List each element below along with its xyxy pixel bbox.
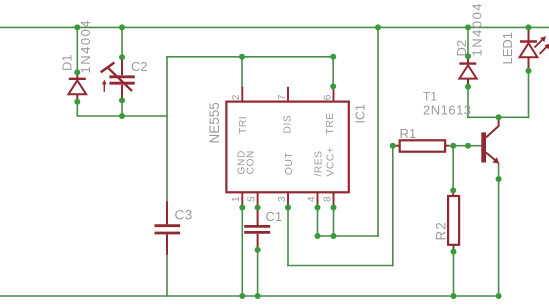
wire bottom ground rail <box>0 295 499 297</box>
junction ground pin1 <box>239 293 245 299</box>
pin 2 stub <box>241 87 243 102</box>
junction D2 top <box>465 53 471 59</box>
junction C2 bottom <box>119 97 125 103</box>
IC U1 NE555 box <box>226 102 348 193</box>
svg-text:C1: C1 <box>266 209 283 224</box>
svg-text:5: 5 <box>246 196 257 202</box>
transistor T1 <box>481 120 499 164</box>
svg-text:R2: R2 <box>434 221 449 240</box>
junction pin6 top <box>330 83 336 89</box>
junction emitter node <box>496 176 502 182</box>
pin 6 stub <box>333 87 335 102</box>
svg-text:DIS: DIS <box>283 115 294 134</box>
resistor R2 <box>448 190 459 251</box>
svg-text:CON: CON <box>246 150 257 174</box>
junction top rail / D1 <box>74 24 80 30</box>
junction pin4 <box>315 205 321 211</box>
svg-text:NE555: NE555 <box>207 102 222 143</box>
junction pin4 vcc <box>315 233 321 239</box>
trimmer capacitor C2 <box>101 57 135 100</box>
svg-text:C3: C3 <box>175 208 193 223</box>
svg-text:1N4004: 1N4004 <box>470 2 485 57</box>
wire C2 bottom drop <box>121 100 123 116</box>
junction top rail / x378 <box>375 24 381 30</box>
junction pin1 <box>239 205 245 211</box>
svg-text:3: 3 <box>277 196 288 202</box>
wire pin6 riser <box>332 57 334 87</box>
svg-text:1: 1 <box>231 196 242 202</box>
junction R2 bottom <box>451 249 457 255</box>
wire pin2 riser <box>241 57 243 87</box>
pin 4 stub <box>317 192 319 207</box>
junction node row end <box>330 54 336 60</box>
wire C2 top drop <box>121 27 123 57</box>
wire D2 top drop <box>467 27 469 56</box>
wire R2 top drop <box>452 146 454 191</box>
svg-text:/RES: /RES <box>314 150 325 176</box>
svg-text:LED1: LED1 <box>500 32 515 65</box>
wire D1 bottom drop <box>76 102 78 116</box>
svg-text:T1: T1 <box>423 90 437 104</box>
svg-text:8: 8 <box>322 196 333 202</box>
wire C3 vertical lower <box>166 255 168 296</box>
svg-text:VCC+: VCC+ <box>326 147 337 177</box>
svg-text:2: 2 <box>231 94 242 100</box>
junction R2 top <box>450 187 456 193</box>
capacitor C1 <box>244 208 270 250</box>
svg-text:TRI: TRI <box>238 116 249 134</box>
wire C3 vertical upper <box>166 57 168 202</box>
pin 3 stub <box>287 192 289 207</box>
svg-text:C2: C2 <box>131 59 148 74</box>
pin 8 stub <box>333 192 335 207</box>
wire collector horizontal <box>468 116 529 118</box>
svg-text:OUT: OUT <box>284 152 295 175</box>
junction pin8 <box>331 205 337 211</box>
junction pin5 <box>255 205 261 211</box>
wire D1 top drop <box>76 27 78 72</box>
wire D2 bottom drop <box>467 87 469 118</box>
junction base node <box>465 143 471 149</box>
junction pin3 <box>285 205 291 211</box>
pin 1 stub <box>241 192 243 207</box>
wire riser to R1 left <box>392 146 394 266</box>
wire pin4 drop <box>317 208 319 237</box>
junction ground R2 <box>451 293 457 299</box>
pin 7 stub <box>287 87 289 102</box>
junction pin8 vcc <box>331 233 337 239</box>
svg-text:7: 7 <box>277 94 288 100</box>
svg-text:6: 6 <box>322 94 333 100</box>
wire R1 right to T1 base <box>446 145 481 147</box>
junction C2 branch <box>119 113 125 119</box>
junction D1 bottom <box>74 99 80 105</box>
wire VCC horizontal to pins 4 8 <box>318 235 379 237</box>
wire pin3 horizontal <box>288 265 393 267</box>
svg-text:4: 4 <box>306 196 317 202</box>
wire pin8 drop <box>333 208 335 237</box>
junction LED1 bottom <box>526 68 532 74</box>
wire top supply rail <box>0 26 549 28</box>
diode D2 <box>459 56 476 86</box>
junction R1 right / R2 <box>450 143 456 149</box>
junction C2 top <box>119 54 125 60</box>
wire C1 bottom to ground <box>257 250 259 296</box>
junction ground emitter <box>496 293 502 299</box>
junction C1 bottom <box>255 247 261 253</box>
wire node row y57 horizontal <box>167 56 333 58</box>
junction D2 bottom <box>465 84 471 90</box>
wire emitter to ground <box>498 164 500 297</box>
resistor R1 <box>393 140 449 151</box>
wire pin1 to ground <box>241 208 243 297</box>
svg-text:2N1613: 2N1613 <box>423 103 472 118</box>
junction pin2 node <box>239 54 245 60</box>
capacitor C3 <box>155 201 181 254</box>
junction D1 top <box>74 69 80 75</box>
wire LED1 bottom drop <box>528 71 530 117</box>
junction top rail / LED1 <box>526 24 532 30</box>
svg-text:R1: R1 <box>400 126 417 141</box>
wire VCC drop x378 <box>377 27 379 236</box>
wire pin3 drop <box>287 208 289 266</box>
junction R1 left <box>390 143 396 149</box>
wire R2 bottom to ground <box>453 252 455 296</box>
junction collector node <box>496 114 502 120</box>
junction top rail / D2 <box>465 24 471 30</box>
junction top rail / C2 <box>119 24 125 30</box>
svg-text:D1: D1 <box>60 54 75 71</box>
svg-text:IC1: IC1 <box>354 104 368 124</box>
svg-text:TRE: TRE <box>325 112 336 134</box>
diode D1 <box>68 72 86 102</box>
wire D1/C2 bottom horizontal <box>77 115 167 117</box>
pin 5 stub <box>257 192 259 207</box>
LED LED1 <box>520 27 549 71</box>
junction ground C1 <box>255 293 261 299</box>
